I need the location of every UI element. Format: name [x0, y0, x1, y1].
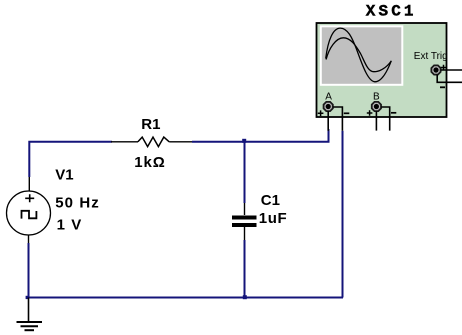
- wire: A minus lead: [333, 107, 342, 131]
- svg-text:V1: V1: [55, 167, 73, 184]
- terminal A: [324, 102, 333, 111]
- svg-text:C1: C1: [261, 192, 280, 209]
- polarity mark - (channel A): [344, 112, 350, 114]
- svg-text:R1: R1: [141, 116, 160, 133]
- polarity mark + (channel A): [318, 110, 324, 116]
- wire: B plus stub: [375, 111, 377, 130]
- wire: junction down to C1: [244, 142, 246, 203]
- svg-text:XSC1: XSC1: [366, 3, 417, 21]
- wire: A plus stub: [327, 111, 329, 131]
- polarity mark + (Ext Trig): [441, 65, 447, 71]
- node: junction at ground: [26, 296, 29, 299]
- wire: bottom horizontal: [28, 297, 344, 299]
- node: junction C1/bottom rail: [243, 295, 247, 299]
- polarity mark - (channel B): [391, 112, 396, 114]
- wire: V1 bottom to ground junction: [28, 243, 30, 298]
- oscilloscope XSC1: [317, 23, 462, 131]
- capacitor C1: [232, 203, 257, 240]
- polarity mark + (channel B): [367, 110, 373, 116]
- scope waveform small: [326, 38, 391, 72]
- svg-text:1 V: 1 V: [57, 216, 83, 233]
- polarity mark + (V1): [25, 194, 34, 202]
- svg-text:B: B: [373, 91, 380, 102]
- square-wave symbol (V1): [22, 211, 37, 219]
- wire: V1 bottom black lead: [28, 235, 30, 243]
- resistor R1: [111, 137, 193, 147]
- scope waveform big: [326, 28, 392, 82]
- svg-text:50 Hz: 50 Hz: [55, 195, 100, 212]
- wire: B minus lead stub: [381, 107, 390, 131]
- wire: top-left horizontal from V1 corner to R1 left lead: [29, 142, 112, 177]
- svg-text:A: A: [325, 91, 332, 102]
- wire: C1 bottom to bottom rail: [244, 240, 246, 298]
- wire: V1 top black lead: [28, 177, 30, 192]
- wire: Ext Trig minus stub: [437, 74, 462, 82]
- svg-text:1uF: 1uF: [259, 210, 287, 227]
- polarity mark - (Ext Trig): [440, 86, 445, 88]
- terminal B: [372, 102, 381, 111]
- wire: R1 to scope A, with junction: [192, 129, 329, 142]
- voltage source V1: [7, 191, 51, 235]
- terminal Ext Trig: [431, 65, 440, 74]
- scope body: [317, 23, 447, 117]
- wire: Ext Trig plus stub: [441, 69, 462, 71]
- svg-text:1kΩ: 1kΩ: [134, 154, 165, 171]
- node: junction R1/C1: [242, 139, 246, 143]
- scope screen: [321, 26, 403, 85]
- svg-text:Ext Trig: Ext Trig: [414, 51, 448, 62]
- ground: [17, 298, 43, 331]
- wire: right vertical from scope A- down to bottom rail: [342, 131, 344, 298]
